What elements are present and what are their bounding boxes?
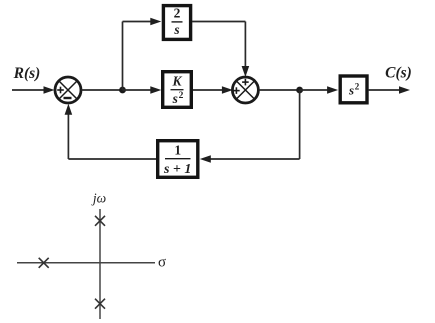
svg-text:R(s): R(s) [13,65,41,82]
label j-omega axis [91,190,106,205]
svg-text:2: 2 [174,5,181,20]
block G2 value K/s^2 [163,72,192,108]
svg-text:σ: σ [158,254,166,270]
summing junction S2 [232,77,258,103]
pole X3 lower imaginary axis [95,299,105,309]
svg-text:K: K [171,74,182,89]
node B (pickoff point) [296,87,303,94]
label R(s) [13,65,41,82]
svg-text:s + 1: s + 1 [163,162,191,177]
wire node A to block G2 [123,86,162,94]
wire S1 to node A [82,89,123,91]
wire node A up to block G1 [123,18,162,90]
svg-text:s: s [173,22,179,37]
imaginary axis (vertical) [99,209,101,319]
wire node B to block G3 [300,86,339,94]
svg-text:C(s): C(s) [385,65,412,82]
wire G1 to summer S2 [192,22,249,78]
pole X2 negative real axis [39,258,49,268]
wire input to summer S1 [12,86,55,94]
svg-text:s: s [172,91,178,106]
svg-text:jω: jω [91,190,106,205]
label sigma axis [158,254,166,270]
svg-text:s: s [348,83,354,98]
svg-text:2: 2 [179,91,184,101]
svg-text:1: 1 [174,143,181,158]
real axis (horizontal) [17,262,155,264]
block H1 value 1/(s+1) [158,141,198,178]
block G1 value 2/s [163,5,190,39]
block G3 value s^2 [340,76,367,103]
pole X1 upper imaginary axis [95,216,105,226]
node A (pickoff point) [119,87,126,94]
wire node B down to block H1 [200,90,300,163]
label C(s) [385,65,412,82]
wire G2 to summer S2 [193,86,233,94]
wire S2 to node B [259,89,300,91]
wire G3 to output C(s) [369,86,410,94]
svg-text:2: 2 [355,82,360,92]
summing junction S1 [55,77,81,103]
wire H1 back to summer S1 [65,104,156,159]
